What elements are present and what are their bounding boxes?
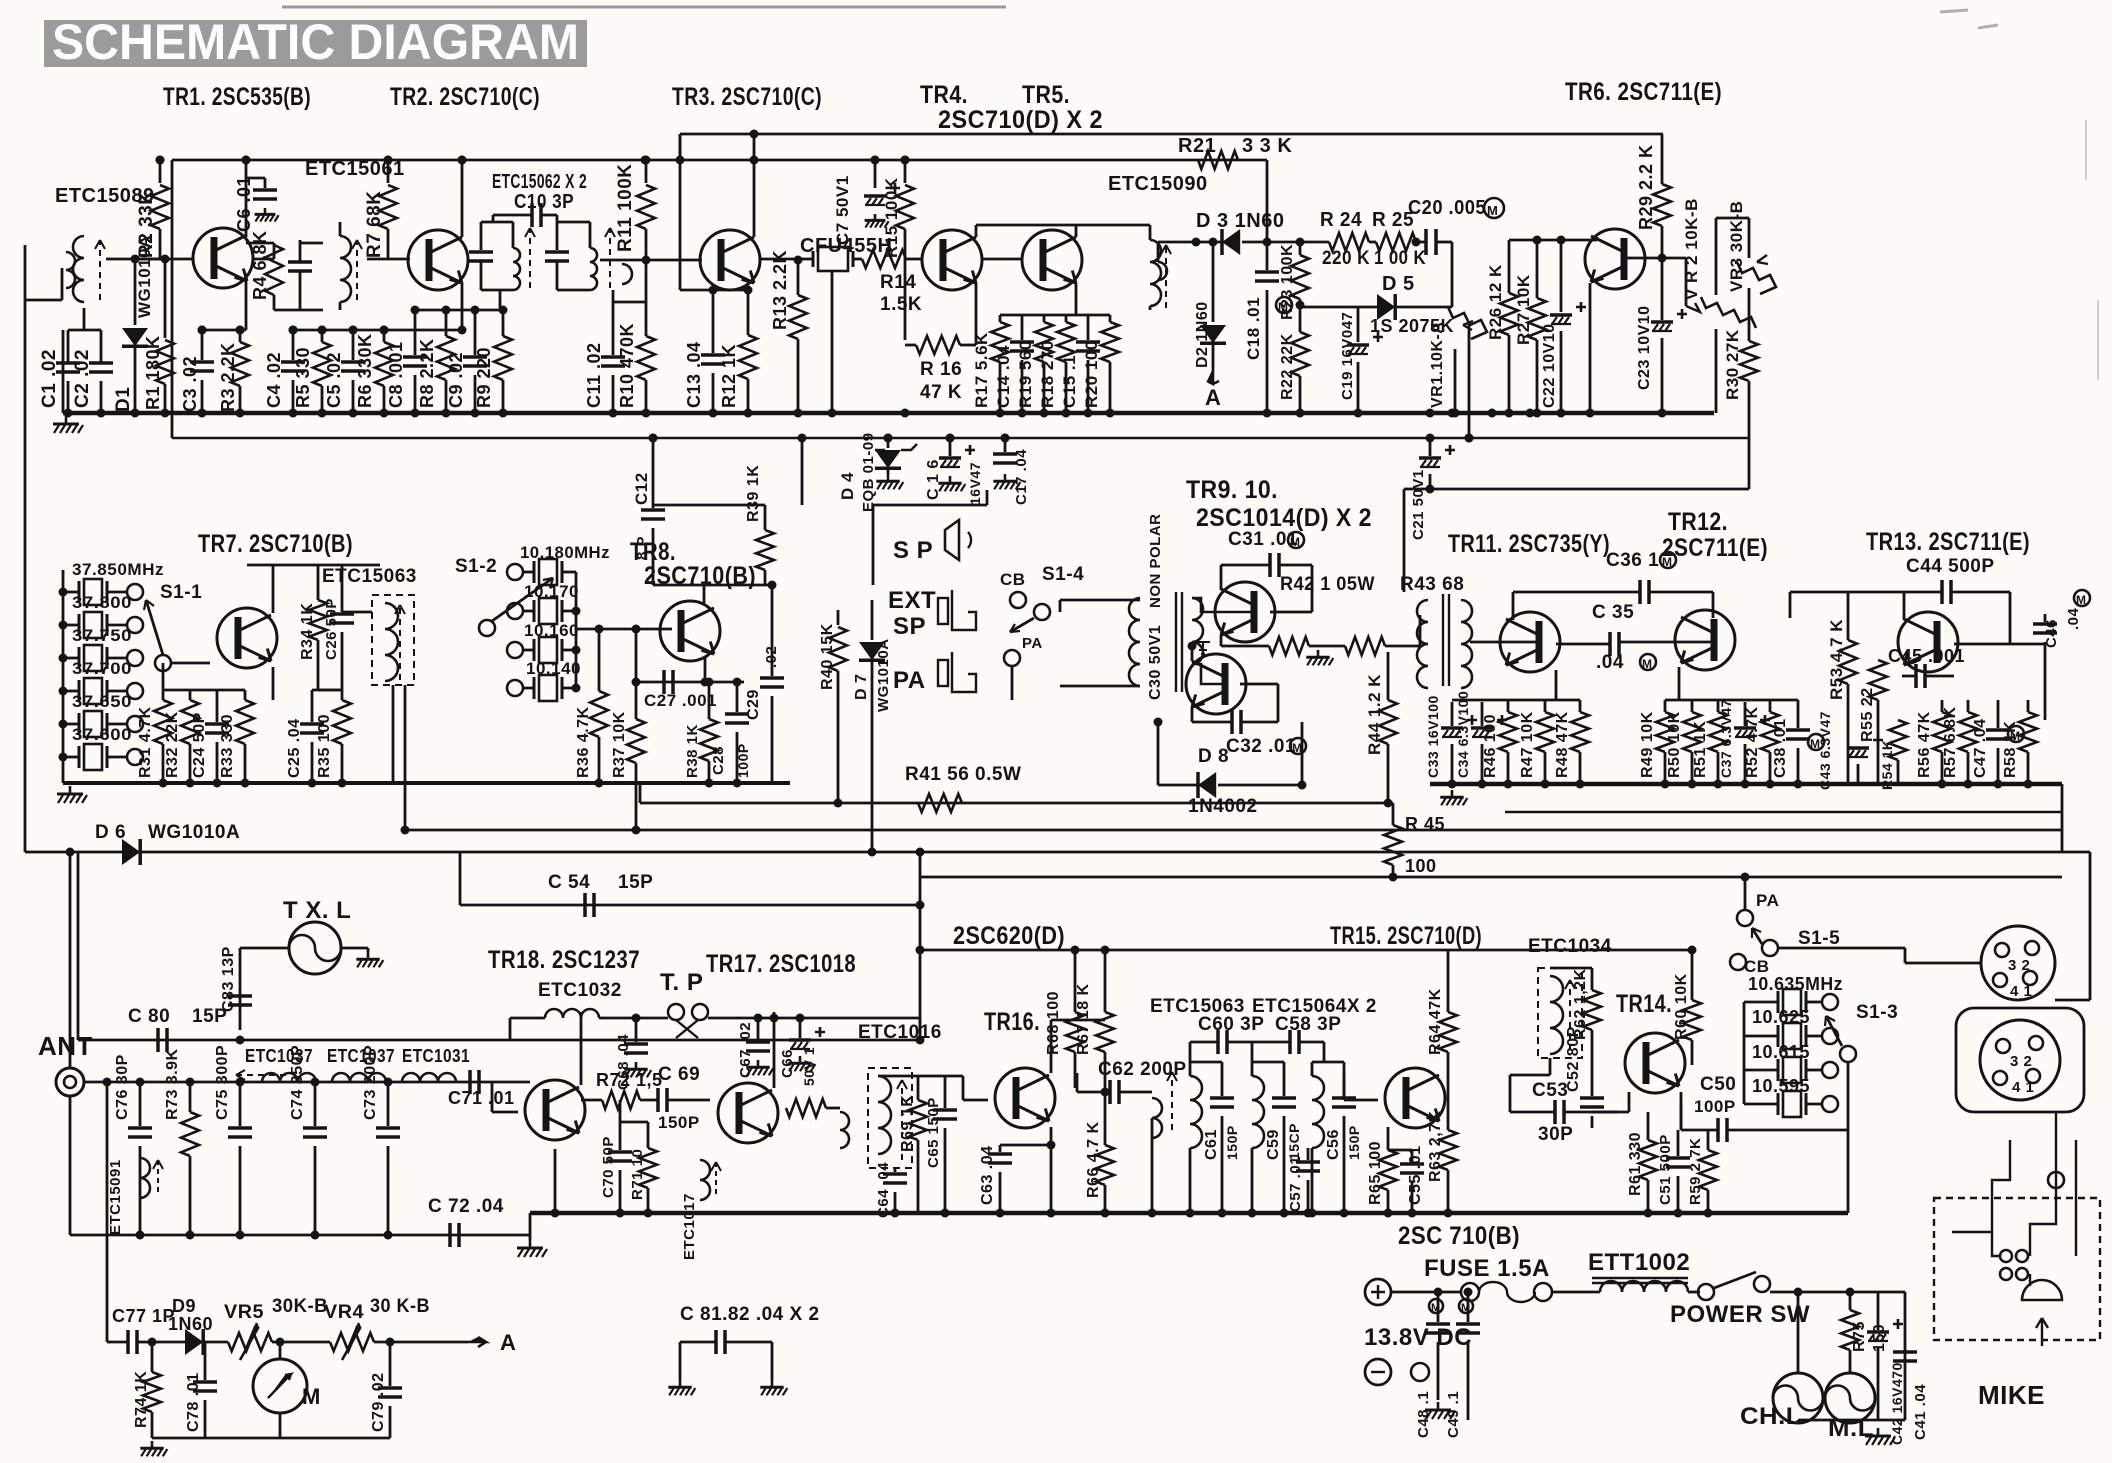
svg-text:C26 50P: C26 50P — [323, 598, 340, 660]
svg-text:CH.L: CH.L — [1740, 1403, 1802, 1430]
svg-text:10.180MHz: 10.180MHz — [520, 543, 610, 562]
svg-text:C20 .005: C20 .005 — [1408, 197, 1486, 219]
svg-text:C8 .001: C8 .001 — [386, 341, 406, 408]
svg-text:R20 100: R20 100 — [1082, 340, 1101, 408]
svg-text:C79 .02: C79 .02 — [370, 1372, 387, 1432]
svg-text:TR18. 2SC1237: TR18. 2SC1237 — [488, 946, 640, 974]
svg-text:R68 100: R68 100 — [1045, 991, 1062, 1055]
svg-text:TR4.: TR4. — [920, 81, 968, 109]
svg-text:50V 1: 50V 1 — [801, 1047, 817, 1086]
svg-text:S1-5: S1-5 — [1798, 928, 1840, 949]
svg-text:R60 10K: R60 10K — [1673, 973, 1690, 1040]
svg-text:37.800: 37.800 — [72, 593, 132, 612]
svg-text:C55 .01: C55 .01 — [1407, 1145, 1424, 1205]
svg-text:SCHEMATIC DIAGRAM: SCHEMATIC DIAGRAM — [52, 14, 579, 70]
svg-text:S1-3: S1-3 — [1856, 1002, 1898, 1023]
svg-text:C32 .01: C32 .01 — [1226, 736, 1296, 757]
svg-text:R66 4.7 K: R66 4.7 K — [1085, 1121, 1102, 1198]
svg-text:1N60: 1N60 — [168, 1314, 213, 1334]
svg-text:1.5K: 1.5K — [880, 294, 922, 315]
svg-text:R7 68K: R7 68K — [364, 191, 385, 258]
svg-text:M: M — [2010, 729, 2021, 743]
svg-text:C 69: C 69 — [658, 1064, 700, 1085]
svg-text:R43 68: R43 68 — [1400, 574, 1464, 595]
svg-text:R49 10K: R49 10K — [1639, 711, 1656, 778]
svg-text:100: 100 — [1405, 856, 1437, 876]
svg-text:1N4002: 1N4002 — [1188, 796, 1258, 817]
svg-text:R52 4.7K: R52 4.7K — [1744, 706, 1761, 778]
svg-text:R69 1K: R69 1K — [899, 1095, 916, 1152]
svg-text:C59: C59 — [1265, 1129, 1282, 1160]
svg-text:C70 50P: C70 50P — [600, 1136, 617, 1198]
svg-text:R 16: R 16 — [920, 359, 962, 380]
svg-text:VR3 30K-B: VR3 30K-B — [1727, 201, 1746, 292]
svg-text:M: M — [1431, 1302, 1441, 1314]
svg-text:150P: 150P — [1224, 1125, 1240, 1160]
svg-text:R47 10K: R47 10K — [1519, 711, 1536, 778]
svg-text:3 2: 3 2 — [2008, 957, 2030, 974]
svg-text:R44 1.2 K: R44 1.2 K — [1365, 674, 1384, 755]
svg-text:PA: PA — [1756, 891, 1779, 910]
svg-text:1 00 K: 1 00 K — [1374, 248, 1426, 269]
svg-text:A: A — [1205, 385, 1221, 410]
svg-text:C 80: C 80 — [128, 1006, 170, 1027]
svg-text:37.650: 37.650 — [72, 692, 132, 711]
svg-text:EXT: EXT — [888, 587, 936, 614]
svg-text:ETC15091: ETC15091 — [107, 1159, 124, 1235]
svg-text:D1: D1 — [113, 387, 134, 412]
svg-text:C63 .04: C63 .04 — [979, 1145, 996, 1205]
svg-text:15CP: 15CP — [1286, 1123, 1302, 1160]
svg-text:C22 10V10: C22 10V10 — [1541, 323, 1558, 408]
svg-text:R54 1K: R54 1K — [1879, 740, 1895, 790]
svg-text:TR5.: TR5. — [1022, 81, 1070, 109]
svg-text:C23 10V10: C23 10V10 — [1636, 305, 1653, 390]
svg-text:R32 22K: R32 22K — [164, 711, 181, 778]
svg-text:TR16.: TR16. — [984, 1008, 1040, 1036]
svg-text:M: M — [1461, 1302, 1471, 1314]
svg-text:M: M — [2076, 593, 2087, 607]
svg-text:V R 2 10K-B: V R 2 10K-B — [1682, 198, 1701, 300]
svg-text:C76 30P: C76 30P — [114, 1054, 131, 1120]
svg-text:15P: 15P — [618, 872, 653, 893]
svg-text:VR1.10K-A: VR1.10K-A — [1429, 322, 1446, 408]
svg-text:R9 220: R9 220 — [474, 347, 494, 408]
svg-text:ETC1037: ETC1037 — [327, 1046, 395, 1066]
svg-text:C75 300P: C75 300P — [214, 1045, 231, 1120]
svg-text:T X. L: T X. L — [283, 897, 351, 924]
svg-text:D 4: D 4 — [838, 472, 857, 500]
svg-text:A: A — [500, 1330, 516, 1355]
svg-text:C42 16V470: C42 16V470 — [1889, 1362, 1905, 1445]
svg-text:C44 500P: C44 500P — [1906, 556, 1995, 577]
svg-text:.04: .04 — [2065, 607, 2082, 630]
svg-text:S1-4: S1-4 — [1042, 564, 1084, 585]
svg-text:C38 .01: C38 .01 — [1772, 718, 1789, 778]
svg-text:C57 .01: C57 .01 — [1287, 1156, 1304, 1212]
svg-text:C41 .04: C41 .04 — [1912, 1384, 1929, 1440]
svg-text:C12: C12 — [632, 472, 651, 505]
svg-text:C25 .04: C25 .04 — [286, 718, 303, 778]
svg-text:C78 .01: C78 .01 — [185, 1372, 202, 1432]
svg-text:ANT: ANT — [38, 1031, 93, 1061]
svg-text:TR7. 2SC710(B): TR7. 2SC710(B) — [198, 530, 353, 558]
svg-text:R40 15K: R40 15K — [819, 623, 836, 690]
svg-text:C30 50V1: C30 50V1 — [1147, 625, 1164, 700]
svg-text:D 6: D 6 — [95, 822, 126, 843]
svg-text:C15 .1: C15 .1 — [1060, 355, 1079, 408]
svg-text:R2 33K: R2 33K — [136, 191, 157, 258]
svg-text:R41 56 0.5W: R41 56 0.5W — [905, 764, 1021, 785]
svg-text:R57 6.8K: R57 6.8K — [1942, 706, 1959, 778]
svg-text:VR5: VR5 — [224, 1302, 264, 1323]
svg-text:TR3. 2SC710(C): TR3. 2SC710(C) — [672, 83, 822, 111]
svg-text:TR9. 10.: TR9. 10. — [1186, 476, 1278, 504]
svg-text:100P: 100P — [1694, 1097, 1736, 1116]
svg-text:13.8V DC: 13.8V DC — [1364, 1324, 1472, 1351]
svg-text:C53: C53 — [1532, 1080, 1568, 1101]
svg-text:R38 1K: R38 1K — [684, 724, 701, 778]
svg-text:R5 330: R5 330 — [293, 347, 313, 408]
svg-text:R64 47K: R64 47K — [1427, 988, 1444, 1055]
svg-text:TR2. 2SC710(C): TR2. 2SC710(C) — [390, 83, 540, 111]
svg-text:R42 1 05W: R42 1 05W — [1280, 574, 1375, 595]
svg-text:C13 .04: C13 .04 — [684, 341, 704, 408]
svg-text:S1-2: S1-2 — [455, 556, 497, 577]
svg-text:R56 47K: R56 47K — [1916, 711, 1933, 778]
svg-text:100P: 100P — [735, 743, 751, 778]
svg-text:R4 6.8K: R4 6.8K — [250, 230, 270, 300]
svg-text:150P: 150P — [658, 1113, 700, 1132]
svg-text:C10 3P: C10 3P — [514, 191, 574, 213]
svg-text:C29: C29 — [745, 689, 762, 720]
svg-text:10.635MHz: 10.635MHz — [1748, 974, 1843, 994]
svg-text:C43 6.3V47: C43 6.3V47 — [1817, 711, 1833, 790]
svg-text:C3 .02: C3 .02 — [180, 356, 200, 412]
svg-text:R46 100: R46 100 — [1482, 714, 1499, 778]
svg-text:ETC15090: ETC15090 — [1108, 173, 1208, 195]
svg-text:R75: R75 — [1851, 1321, 1868, 1352]
svg-text:M: M — [1290, 535, 1301, 549]
svg-text:R8 2.2K: R8 2.2K — [417, 338, 437, 408]
svg-text:NON POLAR: NON POLAR — [1147, 514, 1164, 609]
svg-text:TR6. 2SC711(E): TR6. 2SC711(E) — [1565, 78, 1722, 106]
svg-text:D2 1N60: D2 1N60 — [1194, 301, 1211, 368]
svg-text:C60 3P: C60 3P — [1198, 1014, 1264, 1035]
svg-text:R18 270: R18 270 — [1038, 340, 1057, 408]
svg-text:C36 1: C36 1 — [1606, 550, 1659, 571]
svg-text:R13 2.2K: R13 2.2K — [770, 250, 790, 330]
svg-text:C17 .04: C17 .04 — [1013, 449, 1030, 505]
svg-text:2SC1014(D) X 2: 2SC1014(D) X 2 — [1196, 504, 1372, 532]
svg-text:R55 22: R55 22 — [1859, 687, 1876, 742]
svg-text:T. P: T. P — [660, 969, 703, 996]
svg-text:C 1 6: C 1 6 — [925, 459, 942, 500]
svg-text:C71 .01: C71 .01 — [448, 1088, 515, 1108]
svg-text:C33 16V100: C33 16V100 — [1425, 695, 1441, 778]
svg-text:CB: CB — [1000, 570, 1026, 589]
svg-text:ETC1031: ETC1031 — [402, 1046, 470, 1066]
svg-text:C21 50V1: C21 50V1 — [1410, 469, 1427, 540]
svg-text:ETC15062 X 2: ETC15062 X 2 — [492, 171, 587, 193]
svg-text:C74 350P: C74 350P — [289, 1045, 306, 1120]
svg-text:R30 27K: R30 27K — [1723, 329, 1742, 400]
svg-text:C68 .04: C68 .04 — [615, 1034, 632, 1090]
svg-text:R6 330K: R6 330K — [355, 333, 375, 408]
svg-text:C83 13P: C83 13P — [220, 946, 237, 1012]
svg-text:R21: R21 — [1178, 135, 1216, 157]
svg-text:2SC711(E): 2SC711(E) — [1662, 534, 1768, 562]
svg-text:37.850MHz: 37.850MHz — [72, 560, 164, 579]
svg-text:M: M — [1642, 657, 1653, 671]
svg-text:2SC710(D) X 2: 2SC710(D) X 2 — [938, 106, 1103, 134]
svg-text:C73 200P: C73 200P — [362, 1045, 379, 1120]
svg-text:R35 100: R35 100 — [316, 714, 333, 778]
svg-text:8 P: 8 P — [634, 536, 651, 560]
svg-text:R27 10K: R27 10K — [1514, 274, 1533, 345]
svg-text:TR14.: TR14. — [1616, 990, 1672, 1018]
svg-text:R14: R14 — [880, 272, 916, 293]
svg-text:EQB 01-09: EQB 01-09 — [860, 432, 877, 512]
svg-text:D 7: D 7 — [853, 674, 870, 700]
svg-text:R26 12 K: R26 12 K — [1486, 264, 1505, 340]
svg-text:R33 330: R33 330 — [219, 714, 236, 778]
svg-text:C9 .02: C9 .02 — [446, 352, 466, 408]
svg-text:ETC1034: ETC1034 — [1528, 936, 1612, 957]
svg-text:R34 1K: R34 1K — [299, 603, 316, 660]
svg-text:R73 3.9K: R73 3.9K — [164, 1048, 181, 1120]
svg-text:C 54: C 54 — [548, 872, 590, 893]
svg-text:30P: 30P — [1538, 1124, 1573, 1145]
svg-text:WG1010A: WG1010A — [148, 822, 240, 843]
svg-text:D 3 1N60: D 3 1N60 — [1196, 210, 1285, 232]
svg-text:POWER SW: POWER SW — [1670, 1301, 1810, 1328]
svg-text:S P: S P — [893, 537, 933, 564]
svg-text:R3 2.2K: R3 2.2K — [218, 342, 238, 412]
svg-text:C77 1P: C77 1P — [112, 1306, 175, 1326]
svg-text:150P: 150P — [1346, 1125, 1362, 1160]
svg-text:ETC15063: ETC15063 — [322, 566, 417, 587]
svg-text:R29 2.2 K: R29 2.2 K — [1636, 144, 1656, 230]
svg-text:ETT1002: ETT1002 — [1588, 1249, 1690, 1276]
svg-text:C11 .02: C11 .02 — [584, 342, 604, 408]
svg-text:R74 1K: R74 1K — [133, 1371, 150, 1428]
svg-text:2SC 710(B): 2SC 710(B) — [1398, 1222, 1520, 1250]
svg-text:C45 .001: C45 .001 — [1888, 646, 1965, 666]
svg-text:TR12.: TR12. — [1668, 508, 1728, 536]
svg-text:ETC1016: ETC1016 — [858, 1022, 942, 1043]
svg-text:C14 .04: C14 .04 — [994, 345, 1013, 408]
svg-text:30K-B: 30K-B — [272, 1296, 328, 1317]
svg-text:C65 150P: C65 150P — [925, 1097, 942, 1168]
svg-text:.02: .02 — [763, 646, 780, 668]
svg-text:D 8: D 8 — [1198, 746, 1229, 767]
svg-text:C37 6.3V47: C37 6.3V47 — [1718, 699, 1734, 778]
svg-text:WG1010A: WG1010A — [875, 638, 892, 712]
svg-text:M: M — [1487, 203, 1498, 218]
svg-text:C2 .02: C2 .02 — [72, 349, 93, 408]
svg-text:R31 4.7K: R31 4.7K — [137, 706, 154, 778]
svg-text:TR15. 2SC710(D): TR15. 2SC710(D) — [1330, 922, 1482, 950]
svg-text:C56: C56 — [1325, 1129, 1342, 1160]
svg-text:37.600: 37.600 — [72, 725, 132, 744]
svg-text:C 81.82 .04 X 2: C 81.82 .04 X 2 — [680, 1304, 820, 1325]
svg-text:C66: C66 — [779, 1049, 796, 1078]
svg-text:C58 3P: C58 3P — [1275, 1014, 1341, 1035]
svg-text:PA: PA — [1022, 635, 1043, 652]
svg-text:R65 100: R65 100 — [1367, 1141, 1384, 1205]
svg-text:R37 10K: R37 10K — [611, 711, 628, 778]
svg-text:37.750: 37.750 — [72, 626, 132, 645]
svg-text:R1 180K: R1 180K — [143, 335, 163, 410]
svg-text:R39 1K: R39 1K — [745, 465, 762, 522]
svg-text:R19 560: R19 560 — [1016, 340, 1035, 408]
svg-text:R17 5.6K: R17 5.6K — [972, 332, 991, 408]
svg-text:R48 47K: R48 47K — [1554, 711, 1571, 778]
svg-text:C6 .01: C6 .01 — [234, 176, 254, 232]
svg-text:C34 6.3V100: C34 6.3V100 — [1455, 691, 1471, 778]
svg-text:4 1: 4 1 — [2010, 983, 2032, 1000]
svg-text:MIKE: MIKE — [1978, 1380, 2045, 1410]
svg-text:TR1. 2SC535(B): TR1. 2SC535(B) — [163, 83, 311, 111]
svg-text:C1 .02: C1 .02 — [39, 349, 60, 408]
svg-text:R11 100K: R11 100K — [615, 163, 636, 252]
svg-text:R51 1K: R51 1K — [1692, 721, 1709, 778]
svg-text:TR11. 2SC735(Y): TR11. 2SC735(Y) — [1448, 530, 1610, 558]
svg-text:R61 330: R61 330 — [1627, 1132, 1644, 1196]
svg-text:2SC620(D): 2SC620(D) — [953, 922, 1065, 950]
svg-text:ETC1032: ETC1032 — [538, 980, 622, 1001]
svg-text:C7 50V1: C7 50V1 — [833, 175, 852, 245]
svg-text:D9: D9 — [172, 1296, 196, 1316]
svg-text:TR13. 2SC711(E): TR13. 2SC711(E) — [1866, 528, 2030, 556]
svg-text:C 35: C 35 — [1592, 602, 1634, 623]
svg-text:R23 100K: R23 100K — [1279, 244, 1296, 320]
svg-text:R53 4.7 K: R53 4.7 K — [1827, 619, 1846, 700]
svg-text:R59 2,7K: R59 2,7K — [1687, 1138, 1704, 1205]
svg-text:R36 4.7K: R36 4.7K — [575, 706, 592, 778]
svg-text:C5 .02: C5 .02 — [324, 352, 344, 408]
svg-text:R22 22K: R22 22K — [1279, 333, 1296, 400]
svg-text:220 K: 220 K — [1322, 248, 1370, 269]
svg-text:R71 10: R71 10 — [629, 1149, 646, 1200]
svg-text:M: M — [302, 1384, 321, 1409]
svg-text:15P: 15P — [192, 1006, 227, 1027]
svg-text:M: M — [1662, 555, 1673, 569]
svg-text:3 2: 3 2 — [2010, 1053, 2032, 1070]
svg-text:30 K-B: 30 K-B — [370, 1296, 430, 1317]
svg-text:C24 50P: C24 50P — [191, 712, 208, 778]
svg-text:C64 .04: C64 .04 — [875, 1162, 892, 1218]
svg-text:FUSE 1.5A: FUSE 1.5A — [1424, 1255, 1550, 1282]
svg-text:S1-1: S1-1 — [160, 582, 202, 603]
svg-text:C47 .04: C47 .04 — [1972, 718, 1989, 778]
svg-text:R10 470K: R10 470K — [617, 323, 637, 408]
svg-text:C50: C50 — [1700, 1074, 1736, 1095]
svg-text:R15 100K: R15 100K — [882, 177, 901, 258]
svg-text:C18 .01: C18 .01 — [1244, 297, 1263, 360]
svg-text:R50 10K: R50 10K — [1666, 711, 1683, 778]
svg-text:SP: SP — [893, 613, 926, 640]
svg-text:R12 1K: R12 1K — [719, 344, 739, 408]
svg-text:R 24: R 24 — [1320, 209, 1362, 231]
svg-text:R67 18 K: R67 18 K — [1075, 983, 1092, 1055]
svg-text:C28: C28 — [710, 746, 727, 775]
svg-text:C62 200P: C62 200P — [1098, 1059, 1187, 1080]
svg-text:PA: PA — [893, 667, 926, 694]
svg-text:C 72 .04: C 72 .04 — [428, 1196, 504, 1217]
svg-text:C51 500P: C51 500P — [1657, 1134, 1674, 1205]
svg-text:47 K: 47 K — [920, 382, 962, 403]
svg-text:C61: C61 — [1203, 1129, 1220, 1160]
svg-text:150: 150 — [1871, 1324, 1888, 1352]
svg-text:R63 2,7K: R63 2,7K — [1427, 1110, 1444, 1182]
svg-text:37.700: 37.700 — [72, 659, 132, 678]
svg-text:C27 .001: C27 .001 — [644, 691, 717, 710]
svg-text:3 3 K: 3 3 K — [1242, 135, 1292, 157]
svg-text:C19 16V047: C19 16V047 — [1339, 312, 1356, 400]
svg-text:C67 .02: C67 .02 — [737, 1022, 754, 1078]
svg-text:D 5: D 5 — [1382, 273, 1415, 295]
svg-text:VR4: VR4 — [324, 1302, 364, 1323]
svg-text:4 1: 4 1 — [2012, 1079, 2034, 1096]
svg-text:C4 .02: C4 .02 — [264, 352, 284, 408]
svg-text:TR17. 2SC1018: TR17. 2SC1018 — [706, 950, 856, 978]
svg-text:ETC1017: ETC1017 — [681, 1193, 698, 1260]
svg-text:16V47: 16V47 — [967, 462, 983, 505]
